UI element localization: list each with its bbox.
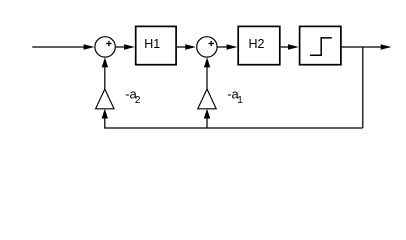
amplifier A1 triangle — [198, 89, 216, 109]
arrowhead output — [381, 44, 392, 49]
summing junction S1 — [95, 37, 115, 57]
arrowhead into summing junction S2 — [185, 44, 196, 49]
wire H2 to quantizer — [281, 46, 290, 48]
step symbol inside quantizer — [310, 38, 332, 55]
svg-text:H2: H2 — [249, 37, 265, 51]
arrowhead into H1 — [124, 44, 135, 49]
svg-text:1: 1 — [237, 95, 243, 106]
arrowhead into quantizer — [288, 44, 299, 49]
wire H1 to S2 — [177, 46, 187, 48]
svg-text:2: 2 — [135, 95, 141, 106]
svg-text:H1: H1 — [144, 37, 160, 51]
amplifier A2 triangle — [96, 89, 114, 109]
plus sign of S2 — [209, 41, 214, 46]
arrowhead into summing junction S1 — [84, 44, 95, 49]
arrowhead into amplifier A2 — [102, 109, 108, 119]
summing junction S2 — [197, 37, 217, 57]
block quantizer U1 — [300, 26, 341, 64]
wire output — [342, 46, 382, 48]
block H2 — [238, 26, 280, 64]
wire S1 to H1 — [116, 46, 126, 48]
wire A2 to S1 — [104, 68, 106, 90]
wire S2 to H2 — [218, 46, 229, 48]
arrowhead into amplifier A1 — [204, 109, 210, 119]
wire A1 to S2 — [206, 68, 208, 90]
node branch — [362, 47, 364, 128]
wire bottom to amplifier A1 — [206, 118, 208, 129]
block H1 — [136, 26, 176, 64]
plus sign of S1 — [106, 41, 111, 46]
wire feedback bottom — [105, 127, 363, 129]
arrowhead into H2 — [227, 44, 238, 49]
arrowhead into S1 bottom — [102, 57, 108, 67]
wire bottom to amplifier A2 — [104, 118, 106, 129]
wire input — [32, 46, 85, 48]
arrowhead into S2 bottom — [204, 57, 210, 67]
